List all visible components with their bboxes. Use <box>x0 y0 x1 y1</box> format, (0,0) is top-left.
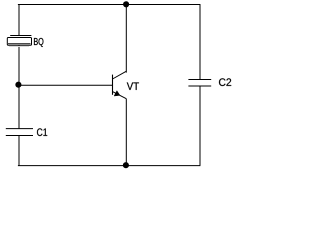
capacitor C1 bottom plate <box>6 135 33 137</box>
wire bottom rail <box>18 165 201 167</box>
label VT <box>127 82 139 89</box>
label C1 <box>37 128 47 136</box>
wire base branch (left wire to transistor base) <box>19 84 112 86</box>
wire collector vertical <box>125 4 127 72</box>
wire emitter vertical <box>125 99 127 166</box>
wire left branch lower (C1 to bottom rail) <box>18 136 20 166</box>
node junction dot left (base branch on left wire) <box>15 82 21 88</box>
crystal BQ top plate <box>10 35 31 37</box>
wire left branch upper (top rail to crystal) <box>18 4 20 35</box>
crystal BQ bottom shading (gray band inside body) <box>8 43 31 47</box>
label BQ <box>34 38 43 47</box>
wire right branch lower (C2 to bottom rail) <box>199 86 201 166</box>
transistor VT base bar <box>112 75 114 95</box>
capacitor C1 top plate <box>6 128 33 130</box>
capacitor C2 bottom plate (gray) <box>188 85 211 87</box>
wire left branch middle (crystal to C1) <box>18 46 20 129</box>
label C2 <box>219 78 231 86</box>
crystal BQ body rectangle <box>7 38 31 46</box>
transistor VT emitter arrow (points toward base bar) <box>114 91 120 96</box>
wire top rail <box>18 4 201 6</box>
capacitor C2 top plate <box>188 79 211 81</box>
wire right branch upper (top rail to C2) <box>199 4 201 79</box>
node junction dot top (collector to top rail) <box>123 1 129 7</box>
node junction dot bottom (emitter to bottom rail) <box>123 162 129 168</box>
transistor VT emitter diagonal <box>113 92 127 99</box>
transistor VT collector diagonal <box>113 71 127 79</box>
